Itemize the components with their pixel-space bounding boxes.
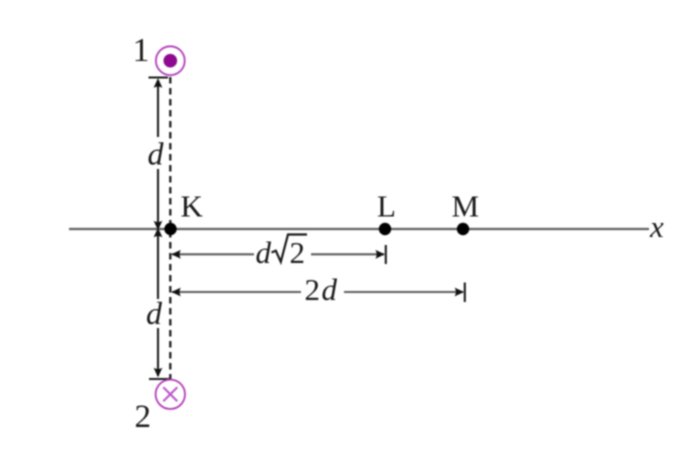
svg-text:2: 2 (305, 272, 321, 307)
svg-text:d: d (256, 235, 272, 270)
svg-text:d: d (146, 295, 163, 331)
svg-text:d: d (148, 136, 165, 172)
svg-text:x: x (649, 209, 664, 244)
svg-text:M: M (452, 189, 480, 224)
svg-text:1: 1 (133, 32, 150, 69)
svg-text:2: 2 (135, 399, 152, 435)
svg-text:2: 2 (290, 235, 306, 270)
svg-text:L: L (377, 189, 396, 224)
svg-text:d: d (322, 272, 338, 307)
svg-text:K: K (181, 189, 204, 224)
